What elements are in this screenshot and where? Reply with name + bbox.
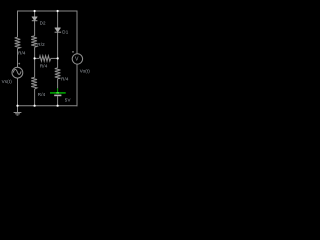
source Vs(t) circle bbox=[12, 67, 23, 78]
resistor R/4 right bbox=[55, 68, 61, 79]
node mid-branch1 bbox=[34, 57, 36, 59]
wire mid horizontal left bbox=[35, 57, 40, 59]
node mid-branch2 bbox=[57, 57, 59, 59]
voltmeter Vo(t) circle bbox=[72, 54, 82, 64]
svg-text:R/4: R/4 bbox=[61, 76, 69, 81]
wire branch2 node-to-R5 bbox=[57, 58, 59, 68]
ground bbox=[14, 113, 22, 116]
svg-text:Vs(t): Vs(t) bbox=[2, 79, 13, 84]
node top-branch2 bbox=[57, 10, 59, 12]
svg-text:R/2: R/2 bbox=[37, 42, 45, 47]
wire top bus bbox=[17, 10, 78, 12]
plus mark at voltmeter bbox=[72, 51, 74, 53]
wire branch2 top stub bbox=[57, 11, 59, 28]
svg-text:D1: D1 bbox=[62, 29, 68, 34]
svg-text:5V: 5V bbox=[65, 97, 71, 102]
wire branch1 D2-to-R2 bbox=[34, 21, 36, 36]
svg-text:R/4: R/4 bbox=[38, 92, 46, 97]
wire branch1 top stub bbox=[34, 11, 36, 17]
svg-text:D2: D2 bbox=[40, 20, 46, 25]
svg-text:Vo(t): Vo(t) bbox=[80, 69, 91, 74]
resistor R/4 horizontal bbox=[39, 56, 51, 61]
resistor R/4 left bbox=[15, 37, 21, 48]
node bottom-branch2 bbox=[57, 105, 59, 107]
wire left rail mid bbox=[17, 49, 19, 68]
wire branch2 R5-to-battery bbox=[57, 79, 59, 89]
node bottom-branch1 bbox=[34, 105, 36, 107]
plus mark at source bbox=[18, 63, 20, 65]
battery 5V bbox=[50, 88, 66, 95]
svg-text:R/4: R/4 bbox=[18, 51, 26, 56]
node top-branch1 bbox=[34, 10, 36, 12]
diode D2 bbox=[32, 17, 38, 21]
diode D1 bbox=[55, 28, 62, 32]
wire battery bottom stub bbox=[57, 96, 59, 106]
node bottom-left bbox=[16, 105, 18, 107]
svg-text:V: V bbox=[75, 56, 79, 62]
wire right rail lower bbox=[76, 64, 78, 106]
resistor R/4 mid-bottom bbox=[31, 77, 37, 89]
background bbox=[0, 0, 97, 120]
wire branch2 D1-to-node bbox=[57, 32, 59, 58]
wire mid horizontal right bbox=[51, 57, 58, 59]
wire right rail upper bbox=[76, 11, 78, 54]
wire branch1 R4-to-bottom bbox=[34, 89, 36, 106]
resistor R/2 bbox=[31, 36, 37, 47]
wire branch1 R2-to-node bbox=[34, 47, 36, 58]
wire bottom bus bbox=[17, 105, 78, 107]
wire left rail upper bbox=[17, 11, 19, 38]
wire branch1 node-to-R4 bbox=[34, 58, 36, 77]
wire ground stem bbox=[17, 106, 19, 113]
wire left rail lower bbox=[17, 78, 19, 105]
svg-text:R/4: R/4 bbox=[40, 63, 48, 68]
